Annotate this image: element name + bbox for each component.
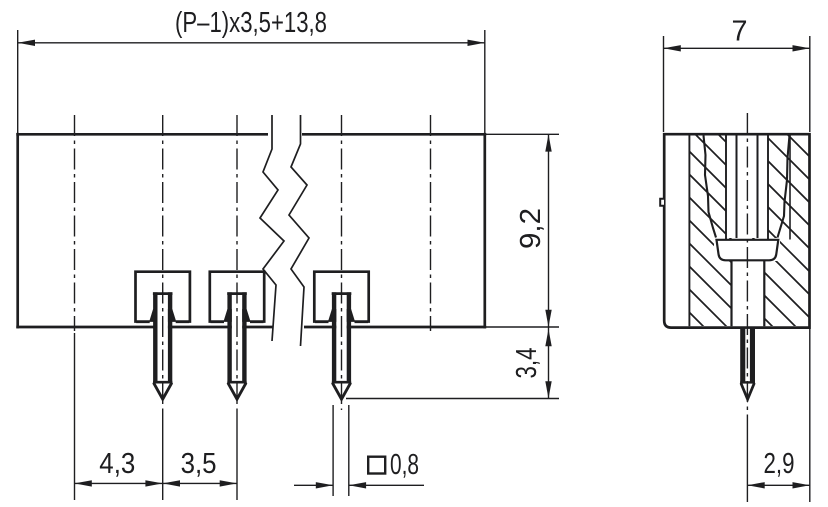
dimension 9,2 : top arrow xyxy=(545,134,551,151)
side inner wall line xyxy=(688,136,690,327)
break line right xyxy=(289,115,309,346)
svg-text:0,8: 0,8 xyxy=(390,449,419,481)
pin 1 collar outline xyxy=(136,272,190,323)
pin 2 left wall xyxy=(227,292,231,383)
pin 2 tip shoulder bar xyxy=(227,381,246,384)
pin 3 collar outline xyxy=(314,272,368,323)
dimension 0,8 : square symbol xyxy=(368,457,385,474)
dimension 7 : right arrow xyxy=(793,45,810,51)
dimension 7 : left arrow xyxy=(664,45,681,51)
pin 2 collar inner ledge xyxy=(211,320,264,323)
dimension 4,3 : right arrow xyxy=(145,480,162,486)
pin 1 slot (white center) xyxy=(158,294,168,400)
svg-text:4,3: 4,3 xyxy=(99,448,135,480)
side solder pin right wall xyxy=(750,329,755,384)
hatching (cross-section) xyxy=(680,4,828,453)
centerline pin 3 xyxy=(341,115,343,410)
pin 2 right wall xyxy=(242,292,246,383)
pin 2 collar outline xyxy=(210,272,264,323)
dimension 4,3 : left arrow xyxy=(75,480,92,486)
pin 3 right wall xyxy=(347,292,351,383)
pin 2 tip point xyxy=(228,384,245,400)
pin 3 head top xyxy=(332,292,352,295)
housing body top edge (right of break) xyxy=(302,133,486,136)
housing body right edge xyxy=(483,133,486,329)
dimension 3,4 : bottom arrow xyxy=(545,381,551,398)
svg-text:2,9: 2,9 xyxy=(764,448,795,480)
pin 1 left wall xyxy=(153,292,157,383)
dimension 4,3 / 3,5 : dimension line xyxy=(75,482,238,484)
centerline A bottom extension xyxy=(74,333,76,500)
side pin strip left edge xyxy=(730,260,732,326)
dimension 3,4 : bottom extension line (from pin tip) xyxy=(346,398,559,400)
pin 2 slot (white center) xyxy=(232,294,242,400)
dimension 0,8 : right dimension line xyxy=(349,484,424,486)
side pin centerline bottom extension xyxy=(746,420,748,502)
pin 3 collar inner ledge xyxy=(315,320,368,323)
centerline A (leftmost, no pin) xyxy=(74,115,76,331)
dimension 3,4 : dimension line xyxy=(548,327,550,399)
side cavity right wall xyxy=(767,136,769,240)
dimension 3,5 : right arrow xyxy=(220,480,237,486)
svg-text:3,5: 3,5 xyxy=(181,448,217,480)
centerline pin 1 xyxy=(162,115,164,412)
dimension 0,8 : left dimension line xyxy=(294,484,333,486)
dimension 3,4 : top arrow xyxy=(545,329,551,346)
pin 2 press-fit flare right xyxy=(242,309,250,322)
side cavity left wall xyxy=(725,136,727,240)
dimension 7 : left extension line xyxy=(663,36,665,132)
side pin centerline xyxy=(746,113,748,420)
dimension (P-1)x3,5+13,8 : left arrow xyxy=(18,40,35,46)
pin 3 press-fit flare right xyxy=(347,309,355,322)
pin 1 press-fit flare left xyxy=(149,309,157,322)
pin 3 tip shoulder bar xyxy=(332,381,351,384)
housing body left edge xyxy=(16,133,19,329)
break line left xyxy=(260,115,284,341)
pin 3 left wall xyxy=(332,292,336,383)
centerline B (rightmost, no pin) xyxy=(430,115,432,331)
housing body bottom edge (left of break) xyxy=(16,326,272,329)
pin 3 slot (white center) xyxy=(336,294,346,400)
side pin inside cavity left edge xyxy=(736,136,738,239)
side pin strip right edge xyxy=(763,260,765,326)
housing body bottom edge (right of break) xyxy=(304,326,486,329)
dimension 7 : right extension line xyxy=(809,36,811,132)
pin 1 collar inner ledge xyxy=(136,320,189,323)
svg-text:9,2: 9,2 xyxy=(515,208,547,249)
centerline pin 2 xyxy=(236,115,238,412)
side contact spring left xyxy=(704,136,717,238)
side solder pin left wall xyxy=(740,329,745,384)
dimension 9,2 : top extension line xyxy=(486,133,559,135)
side cavity outer wall right xyxy=(789,136,791,240)
dimension 2,9 : dimension line xyxy=(747,484,809,486)
pin 1 press-fit flare right xyxy=(168,309,176,322)
dimension (P-1)x3,5+13,8 : right arrow xyxy=(468,40,485,46)
side solder pin tip shoulder bar xyxy=(740,381,755,383)
dimension (P-1)x3,5+13,8 : right extension line xyxy=(484,30,486,133)
side solder pin slot (white center) xyxy=(745,329,750,399)
side contact spring right xyxy=(778,136,790,238)
centerline pin 2 bottom extension xyxy=(236,412,238,500)
dimension 0,8 : left extension line (pin shaft edge) xyxy=(332,405,334,496)
pin 3 press-fit flare left xyxy=(328,309,336,322)
dimension 0,8 : left arrow xyxy=(316,482,333,488)
side latch notch on left edge xyxy=(660,199,664,206)
dimension 3,5 : left arrow xyxy=(163,480,180,486)
dimension 0,8 : right arrow xyxy=(349,482,366,488)
dimension 9,2 : bottom extension line (shared with 3,4) xyxy=(486,326,559,328)
dimension (P-1)x3,5+13,8 : dimension line xyxy=(18,42,485,44)
centerline pin 1 bottom extension xyxy=(162,412,164,500)
dimension 7 : dimension line xyxy=(664,47,810,49)
housing body top edge (left of break) xyxy=(16,133,268,136)
dimension 2,9 : left arrow xyxy=(747,482,764,488)
dimension (P-1)x3,5+13,8 : left extension line xyxy=(17,30,19,133)
pin 2 head top xyxy=(227,292,247,295)
dimension 0,8 : right extension line (pin shaft edge) xyxy=(348,405,350,496)
pin 1 tip shoulder bar xyxy=(153,381,172,384)
dimension 2,9 : right arrow xyxy=(793,482,810,488)
dimension 9,2 : bottom arrow xyxy=(545,310,551,327)
dimension 2,9 : right extension line xyxy=(809,329,811,502)
svg-text:3,4: 3,4 xyxy=(511,348,543,379)
svg-text:(P–1)x3,5+13,8: (P–1)x3,5+13,8 xyxy=(175,7,327,39)
pin 1 head top xyxy=(153,292,173,295)
pin 1 tip point xyxy=(154,384,171,400)
svg-text:7: 7 xyxy=(732,16,748,48)
side solder pin tip point xyxy=(741,384,754,400)
side pin inside cavity right edge xyxy=(757,136,759,239)
dimension 9,2 : dimension line xyxy=(548,134,550,327)
side body outline xyxy=(664,134,809,327)
pin 1 right wall xyxy=(168,292,172,383)
pin 2 press-fit flare left xyxy=(223,309,231,322)
pin 3 tip point xyxy=(333,384,350,400)
side contact socket block xyxy=(717,240,779,260)
